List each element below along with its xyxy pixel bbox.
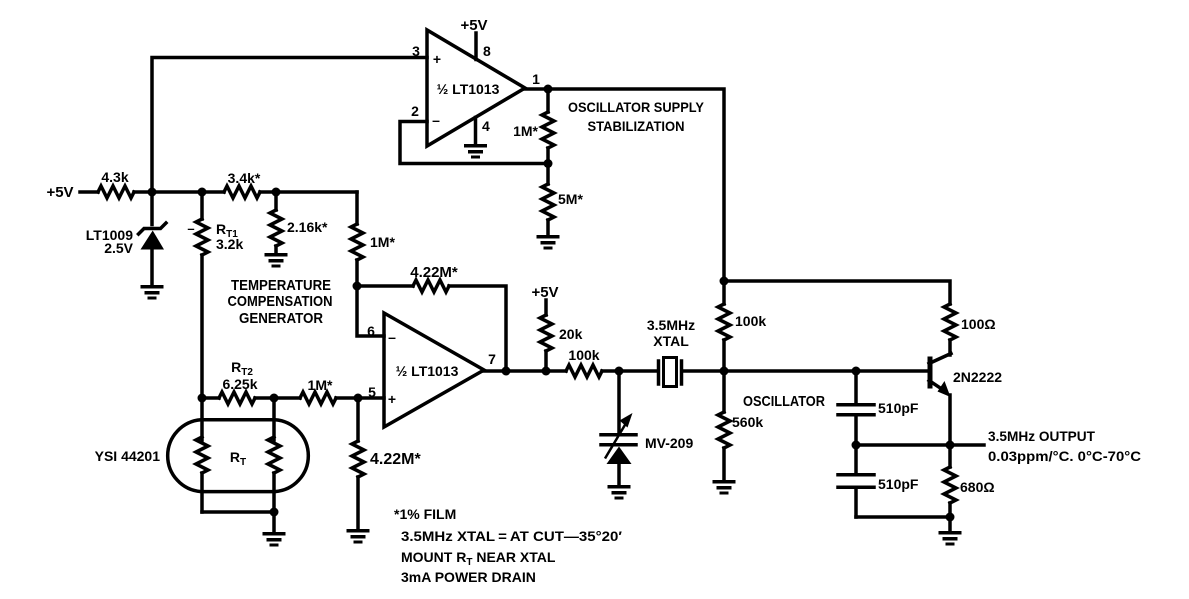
svg-text:3.5MHz XTAL = AT CUT—35°20′: 3.5MHz XTAL = AT CUT—35°20′ <box>401 528 623 544</box>
svg-text:680Ω: 680Ω <box>960 479 995 495</box>
resistor 4.22M* (feedback U2) <box>357 284 413 288</box>
svg-text:MV-209: MV-209 <box>645 435 693 451</box>
svg-text:3.4k*: 3.4k* <box>228 170 261 186</box>
node U1 output <box>544 85 553 94</box>
node feedback tap <box>502 367 511 376</box>
ground below 2.16k <box>265 253 288 268</box>
wire emitter down <box>948 395 952 445</box>
svg-text:1M*: 1M* <box>308 377 333 393</box>
resistor 100k (bias upper) <box>722 281 726 304</box>
node crystal bias junction <box>720 367 729 376</box>
op-amp U1 1/2 LT1013 <box>427 30 525 146</box>
svg-text:6.25k: 6.25k <box>222 376 257 392</box>
wire feedback to output <box>449 286 506 371</box>
svg-text:+5V: +5V <box>46 184 73 201</box>
node junction RT1 top <box>198 188 207 197</box>
resistor 680 ohm <box>948 445 952 467</box>
wire crystal to bias node <box>684 369 725 373</box>
wire junction up to pin 3 of U1 <box>152 58 427 225</box>
resistor 4.3k <box>98 186 134 198</box>
wire thermistor bottom <box>202 512 274 532</box>
svg-text:2N2222: 2N2222 <box>953 369 1002 385</box>
svg-text:6: 6 <box>367 323 375 339</box>
wire cap bottom to emitter bottom <box>856 515 950 519</box>
svg-text:3: 3 <box>412 43 420 59</box>
svg-text:COMPENSATION: COMPENSATION <box>228 293 333 310</box>
ground below 5M <box>537 235 560 250</box>
op-amp U2 1/2 LT1013 <box>384 313 484 427</box>
node varactor tap <box>615 367 624 376</box>
node output rail left <box>852 441 861 450</box>
svg-text:2.16k*: 2.16k* <box>287 219 328 235</box>
wire 100k to crystal <box>602 369 656 373</box>
svg-text:*1% FILM: *1% FILM <box>394 506 456 522</box>
svg-text:1M*: 1M* <box>513 123 538 139</box>
svg-text:½ LT1013: ½ LT1013 <box>437 81 500 97</box>
wire 3.4k to 1M corner <box>260 190 357 194</box>
ground below 4.22M <box>347 529 370 544</box>
svg-text:7: 7 <box>488 351 496 367</box>
node supply/collector junction <box>720 277 729 286</box>
node cap tap on base rail <box>852 367 861 376</box>
svg-text:OSCILLATOR SUPPLY: OSCILLATOR SUPPLY <box>568 99 705 115</box>
resistor 4.22M* (U2 pin5 to ground) <box>356 398 360 441</box>
node divider mid <box>544 159 553 168</box>
resistor 2.16k* <box>274 192 278 210</box>
capacitor 510pF (lower) <box>854 445 858 473</box>
resistor 1M* (output divider top) <box>546 89 550 112</box>
svg-text:+: + <box>433 51 441 67</box>
svg-text:GENERATOR: GENERATOR <box>239 310 323 327</box>
svg-text:YSI 44201: YSI 44201 <box>95 448 161 464</box>
svg-text:3.5MHz OUTPUT: 3.5MHz OUTPUT <box>988 428 1095 444</box>
resistor 100k (series) <box>566 365 602 377</box>
wire U2 pin 5 <box>358 396 384 400</box>
wire U1 pin 2 feedback <box>400 122 548 164</box>
svg-text:RT: RT <box>230 449 246 468</box>
svg-text:560k: 560k <box>732 414 763 430</box>
svg-text:2.5V: 2.5V <box>104 240 133 256</box>
zener LT1009 2.5V <box>139 223 167 234</box>
svg-text:OSCILLATOR: OSCILLATOR <box>743 393 825 410</box>
thermistor RT left element <box>200 398 204 440</box>
resistor 1M* (to U2 pin5) <box>274 396 300 400</box>
node emitter/output junction <box>946 441 955 450</box>
wire U1 output to right column <box>525 89 724 281</box>
svg-text:100Ω: 100Ω <box>961 316 996 332</box>
svg-text:TEMPERATURE: TEMPERATURE <box>231 277 331 294</box>
thermistor package YSI 44201 (oval) <box>168 420 309 492</box>
svg-text:XTAL: XTAL <box>653 333 689 349</box>
svg-text:100k: 100k <box>735 313 766 329</box>
svg-text:–: – <box>187 221 194 236</box>
svg-text:MOUNT RT NEAR XTAL: MOUNT RT NEAR XTAL <box>401 549 556 568</box>
svg-text:+5V: +5V <box>460 17 487 34</box>
wire U2 pin 6 <box>357 286 384 336</box>
ground below MV-209 <box>608 485 631 500</box>
node 680/cap junction <box>946 513 955 522</box>
svg-text:4.22M*: 4.22M* <box>410 264 458 281</box>
wire pin 8 <box>474 33 478 60</box>
node feedback junction U2 pin6 <box>353 282 362 291</box>
svg-text:+: + <box>388 391 396 407</box>
node RT2 left junction <box>198 394 207 403</box>
wire base rail <box>724 369 928 373</box>
svg-text:5: 5 <box>368 384 376 400</box>
resistor 100 ohm <box>944 304 956 340</box>
svg-text:–: – <box>388 329 396 345</box>
wire output rail <box>856 443 984 447</box>
node junction 2.16k top <box>272 188 281 197</box>
resistor RT2 6.25k <box>202 396 219 400</box>
wire 4.3k to 3.4k rail <box>134 190 224 194</box>
wire U1 pin 4 to ground <box>474 118 478 145</box>
svg-text:1M*: 1M* <box>370 234 395 250</box>
resistor 20k <box>544 300 548 315</box>
svg-text:510pF: 510pF <box>878 476 919 492</box>
wire supply to 100ohm <box>724 281 950 304</box>
thermistor RT right element <box>272 398 276 440</box>
svg-text:½ LT1013: ½ LT1013 <box>396 363 459 379</box>
svg-text:STABILIZATION: STABILIZATION <box>588 118 685 134</box>
ground U1 pin 4 <box>464 144 487 159</box>
svg-text:20k: 20k <box>559 326 583 342</box>
svg-text:3mA POWER DRAIN: 3mA POWER DRAIN <box>401 569 536 585</box>
svg-text:–: – <box>432 112 440 128</box>
node pin5 junction <box>354 394 363 403</box>
resistor 3.4k* <box>224 186 260 198</box>
varactor MV-209 <box>617 371 621 432</box>
svg-text:3.2k: 3.2k <box>216 236 243 252</box>
svg-text:3.5MHz: 3.5MHz <box>647 317 695 333</box>
wire RT1 down to RT2 rail <box>200 255 204 398</box>
svg-text:5M*: 5M* <box>558 191 583 207</box>
resistor 5M* <box>546 164 550 185</box>
wire U2 output <box>484 369 566 373</box>
svg-text:8: 8 <box>483 43 491 59</box>
node 20k tap <box>542 367 551 376</box>
svg-text:4: 4 <box>482 118 490 134</box>
svg-text:0.03ppm/°C. 0°C-70°C: 0.03ppm/°C. 0°C-70°C <box>988 448 1141 464</box>
crystal 3.5MHz XTAL <box>657 361 661 384</box>
svg-text:2: 2 <box>411 103 419 119</box>
wire +5V to 4.3k <box>80 190 98 194</box>
ground below 680 <box>939 531 962 546</box>
capacitor 510pF (upper) <box>854 371 858 403</box>
resistor 1M* (from +5V rail down) <box>355 192 359 224</box>
svg-text:100k: 100k <box>568 347 599 363</box>
ground below thermistor <box>263 532 286 547</box>
resistor RT1 3.2k <box>200 192 204 219</box>
node thermistor bottom junction <box>270 508 279 517</box>
svg-text:510pF: 510pF <box>878 400 919 416</box>
node RT2/1M junction <box>270 394 279 403</box>
resistor 560k (bias lower) <box>722 371 726 412</box>
ground below LT1009 <box>141 285 164 300</box>
svg-text:4.22M*: 4.22M* <box>370 451 421 468</box>
svg-text:4.3k: 4.3k <box>101 169 128 185</box>
svg-text:1: 1 <box>532 71 540 87</box>
node junction +5V/LT1009 <box>148 188 157 197</box>
ground below 560k <box>713 480 736 495</box>
